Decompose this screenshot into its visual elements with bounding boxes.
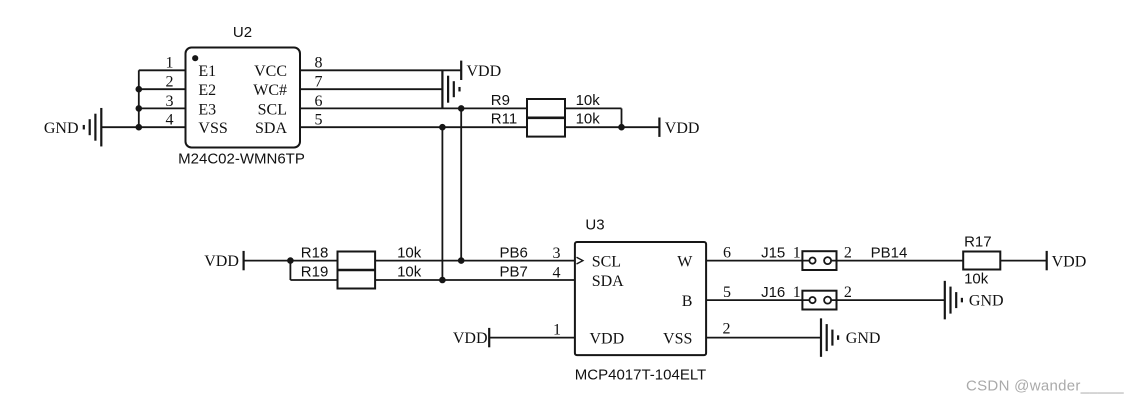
- svg-text:VDD: VDD: [1052, 254, 1087, 271]
- svg-text:1: 1: [166, 55, 174, 72]
- svg-text:VDD: VDD: [467, 63, 502, 80]
- svg-text:VCC: VCC: [254, 63, 287, 80]
- svg-text:10k: 10k: [576, 110, 601, 127]
- svg-text:VDD: VDD: [453, 330, 488, 347]
- svg-text:MCP4017T-104ELT: MCP4017T-104ELT: [575, 367, 706, 384]
- svg-text:8: 8: [315, 55, 323, 72]
- svg-text:PB7: PB7: [500, 264, 528, 281]
- svg-text:SDA: SDA: [255, 120, 287, 137]
- svg-text:E2: E2: [198, 82, 216, 99]
- svg-text:PB6: PB6: [500, 244, 528, 261]
- svg-text:VSS: VSS: [198, 120, 227, 137]
- svg-text:7: 7: [315, 74, 323, 91]
- svg-text:VDD: VDD: [590, 331, 625, 348]
- svg-text:VDD: VDD: [204, 253, 239, 270]
- svg-text:2: 2: [723, 321, 731, 338]
- svg-text:R17: R17: [964, 233, 992, 250]
- svg-text:VSS: VSS: [663, 331, 692, 348]
- svg-text:WC#: WC#: [253, 82, 287, 99]
- svg-text:CSDN @wander_____: CSDN @wander_____: [966, 378, 1124, 395]
- svg-text:PB14: PB14: [871, 244, 908, 261]
- svg-text:10k: 10k: [397, 264, 422, 281]
- svg-text:R9: R9: [491, 92, 510, 109]
- svg-text:J15: J15: [761, 244, 785, 261]
- svg-text:J16: J16: [761, 284, 785, 301]
- svg-text:2: 2: [166, 74, 174, 91]
- svg-text:3: 3: [553, 245, 561, 262]
- svg-text:R11: R11: [491, 110, 517, 127]
- svg-text:W: W: [677, 254, 693, 271]
- svg-text:6: 6: [315, 93, 323, 110]
- svg-text:4: 4: [553, 264, 561, 281]
- svg-text:R19: R19: [301, 264, 329, 281]
- svg-text:VDD: VDD: [665, 120, 700, 137]
- svg-text:SCL: SCL: [258, 101, 287, 118]
- svg-text:5: 5: [723, 284, 731, 301]
- svg-text:R18: R18: [301, 244, 329, 261]
- svg-text:GND: GND: [846, 330, 881, 347]
- svg-text:10k: 10k: [397, 244, 422, 261]
- svg-text:2: 2: [844, 284, 852, 301]
- svg-text:E3: E3: [198, 101, 216, 118]
- svg-text:3: 3: [166, 93, 174, 110]
- svg-text:10k: 10k: [576, 92, 601, 109]
- svg-text:1: 1: [793, 244, 801, 261]
- svg-text:U3: U3: [585, 216, 604, 233]
- svg-text:2: 2: [844, 244, 852, 261]
- svg-text:GND: GND: [969, 293, 1004, 310]
- svg-text:U2: U2: [233, 24, 252, 41]
- svg-text:4: 4: [166, 112, 174, 129]
- svg-text:E1: E1: [198, 63, 216, 80]
- svg-text:M24C02-WMN6TP: M24C02-WMN6TP: [178, 151, 305, 168]
- svg-text:6: 6: [723, 244, 731, 261]
- svg-text:1: 1: [553, 321, 561, 338]
- svg-text:5: 5: [315, 112, 323, 129]
- svg-text:1: 1: [793, 284, 801, 301]
- svg-text:SCL: SCL: [592, 254, 621, 271]
- svg-text:GND: GND: [44, 120, 79, 137]
- svg-text:SDA: SDA: [592, 273, 624, 290]
- svg-text:B: B: [682, 293, 693, 310]
- svg-text:10k: 10k: [964, 270, 989, 287]
